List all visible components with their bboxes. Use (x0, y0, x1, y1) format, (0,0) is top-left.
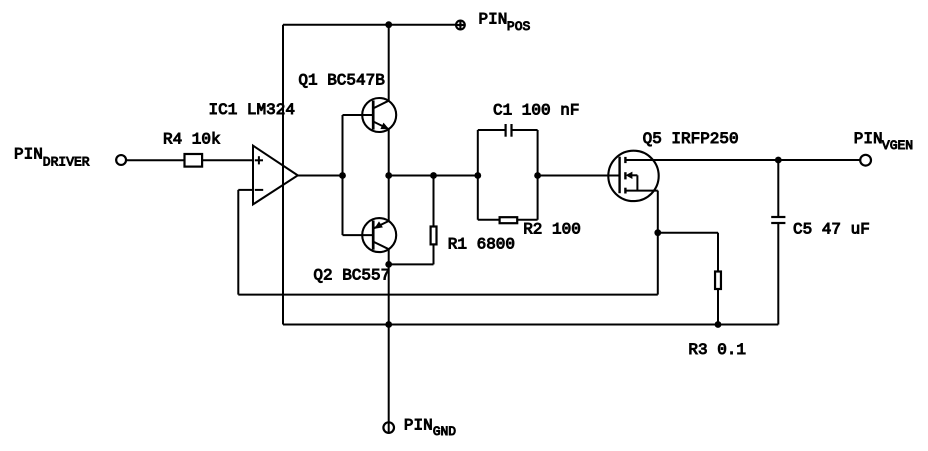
svg-text:VGEN: VGEN (882, 138, 913, 153)
svg-text:PIN: PIN (854, 130, 883, 148)
svg-text:C1 100 nF: C1 100 nF (493, 101, 579, 119)
svg-text:PIN: PIN (479, 11, 508, 29)
svg-text:POS: POS (507, 19, 531, 34)
svg-text:Q1 BC547B: Q1 BC547B (298, 71, 384, 89)
svg-text:R1 6800: R1 6800 (448, 236, 515, 254)
svg-text:R3 0.1: R3 0.1 (688, 341, 746, 359)
svg-text:PIN: PIN (14, 145, 43, 163)
svg-text:Q2 BC557: Q2 BC557 (313, 266, 390, 284)
svg-text:R2 100: R2 100 (523, 221, 581, 239)
svg-text:IC1 LM324: IC1 LM324 (209, 101, 295, 119)
svg-text:Q5 IRFP250: Q5 IRFP250 (643, 130, 739, 148)
svg-text:GND: GND (433, 424, 457, 439)
svg-text:DRIVER: DRIVER (43, 154, 90, 169)
svg-text:PIN: PIN (404, 417, 433, 435)
svg-text:C5 47 uF: C5 47 uF (793, 221, 870, 239)
svg-text:R4 10k: R4 10k (163, 130, 221, 148)
